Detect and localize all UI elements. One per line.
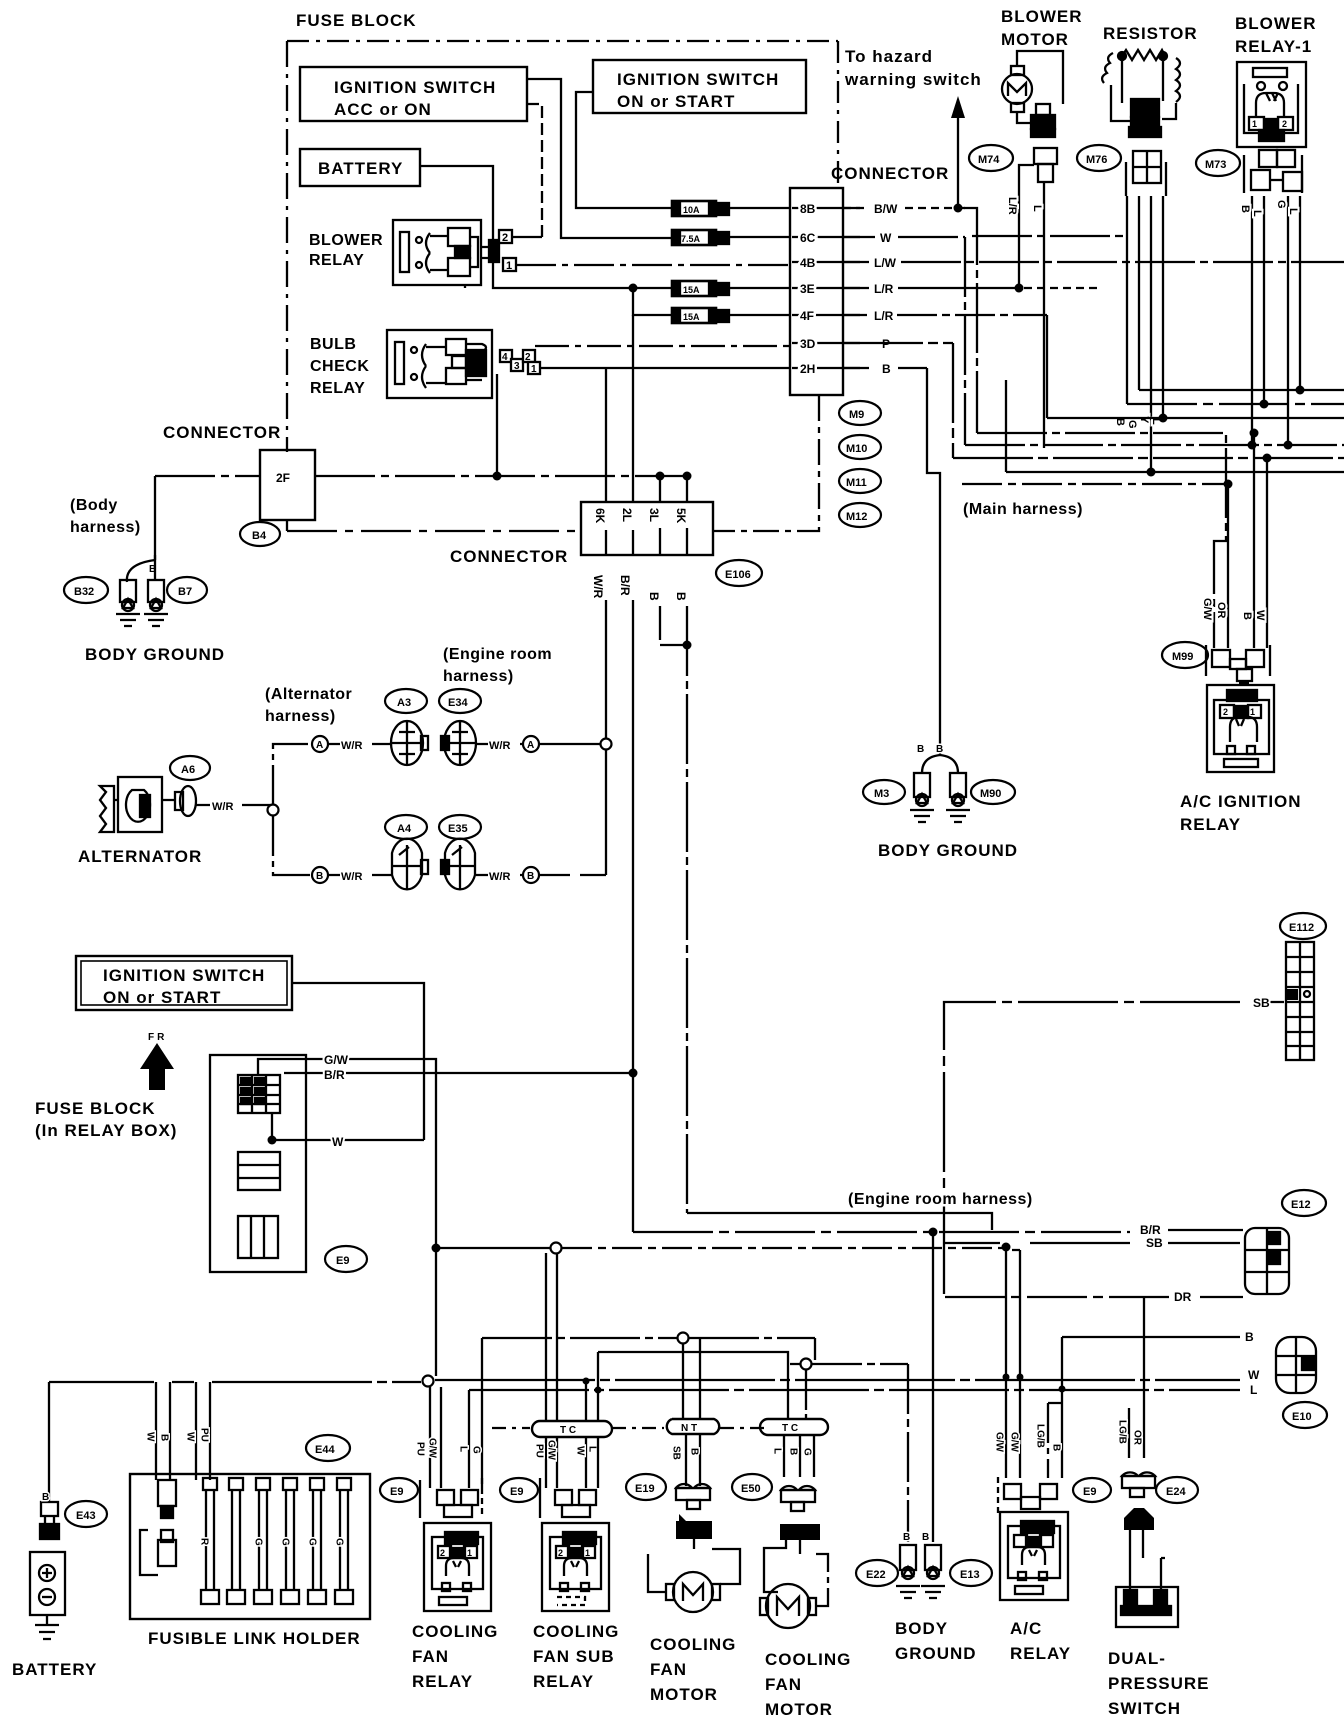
dual pressure switch	[1116, 1587, 1178, 1627]
body ground mid clamps	[910, 755, 970, 822]
wire B columns merge	[660, 606, 687, 1213]
svg-text:4 3: 4 3	[567, 1534, 580, 1544]
svg-text:E106: E106	[725, 569, 751, 581]
oval M90	[971, 780, 1015, 804]
fuse 15A (4F)	[672, 308, 729, 323]
svg-text:CONNECTOR: CONNECTOR	[450, 547, 568, 566]
svg-text:6C: 6C	[800, 231, 816, 245]
svg-text:1: 1	[1250, 707, 1255, 717]
svg-text:L/W: L/W	[874, 256, 897, 270]
svg-text:B/W: B/W	[874, 202, 898, 216]
svg-text:BLOWER: BLOWER	[309, 232, 383, 249]
svg-text:MOTOR: MOTOR	[1001, 30, 1069, 49]
svg-text:G: G	[307, 1538, 318, 1546]
svg-text:G: G	[253, 1538, 264, 1546]
wire W/R column down	[605, 600, 607, 875]
svg-text:B/R: B/R	[618, 575, 632, 596]
svg-text:SB: SB	[1253, 996, 1270, 1010]
blower motor connector M74	[1019, 148, 1057, 196]
svg-text:1: 1	[585, 1548, 590, 1558]
oval M76	[1077, 145, 1121, 171]
svg-text:G/W: G/W	[546, 1440, 557, 1461]
svg-text:SB: SB	[1146, 1236, 1163, 1250]
svg-text:L/R: L/R	[874, 309, 894, 323]
svg-text:FUSE BLOCK: FUSE BLOCK	[35, 1099, 156, 1118]
wire ACC to blower relay pin2	[527, 104, 542, 239]
wire OR down to M99	[1227, 484, 1229, 648]
wire B4 link from 2F bottom	[287, 520, 581, 531]
svg-text:B: B	[159, 1434, 170, 1441]
svg-text:L: L	[1287, 208, 1299, 215]
connector A3 (round with cross)	[391, 721, 428, 765]
svg-text:L: L	[458, 1446, 469, 1452]
svg-text:A: A	[527, 740, 534, 751]
oval M3	[863, 780, 905, 804]
svg-text:W/R: W/R	[489, 871, 510, 883]
svg-text:RELAY: RELAY	[533, 1672, 594, 1691]
svg-text:G/W: G/W	[1009, 1432, 1020, 1453]
svg-text:4F: 4F	[800, 309, 814, 323]
svg-text:R: R	[199, 1538, 210, 1546]
svg-text:PU: PU	[534, 1444, 545, 1458]
svg-text:B: B	[1239, 205, 1251, 213]
wire B/R column down	[632, 600, 634, 1232]
dual pressure wires	[1129, 1297, 1144, 1458]
oval A4	[385, 815, 427, 839]
svg-text:G/W: G/W	[427, 1438, 438, 1459]
svg-text:IGNITION SWITCH: IGNITION SWITCH	[617, 70, 779, 89]
svg-text:RELAY: RELAY	[1010, 1644, 1071, 1663]
ovals M9-M12	[839, 401, 881, 425]
wire ON/START to 10A fuse	[576, 92, 672, 208]
bulb check relay pins 4,3,2,1	[500, 350, 540, 374]
relay-1 wires down	[1251, 196, 1253, 445]
wire bulb check pin1 to 2H row	[540, 367, 790, 369]
wire rail dashes between ovals	[492, 1427, 770, 1429]
svg-text:E22: E22	[866, 1569, 886, 1581]
svg-text:1: 1	[531, 364, 537, 375]
svg-text:(Body: (Body	[70, 497, 118, 514]
resistor wires B G Y L down	[1126, 196, 1128, 404]
connector box	[790, 188, 843, 395]
svg-text:ON or START: ON or START	[103, 988, 221, 1007]
E12 connector	[1245, 1228, 1289, 1294]
oval E9 (fuse block)	[325, 1246, 367, 1272]
wire W/R to A4 connector	[328, 874, 392, 876]
cooling fan motor2	[760, 1540, 828, 1628]
svg-text:B: B	[674, 592, 688, 601]
fuse 10A	[672, 201, 729, 216]
svg-text:E34: E34	[448, 697, 468, 709]
connector E34 (round with cross, black pin)	[441, 721, 476, 765]
body ground left clamps	[116, 555, 168, 626]
svg-text:T C: T C	[782, 1423, 798, 1434]
oval A3	[385, 689, 427, 713]
fuse block dashed outline	[287, 40, 838, 42]
svg-text:RELAY-1: RELAY-1	[1235, 37, 1312, 56]
cooling fan motor1 pins	[676, 1521, 712, 1539]
svg-text:G: G	[1126, 420, 1138, 429]
E112 connector grid	[1286, 942, 1314, 1060]
cooling fan relay	[424, 1523, 491, 1611]
fusible link holder box	[130, 1474, 370, 1619]
oval E35	[439, 815, 481, 839]
cooling fan relay connector	[420, 1478, 482, 1518]
wire blower relay pin2 up-link	[512, 236, 542, 238]
wire 4B L/W row	[843, 261, 1344, 263]
svg-text:5K: 5K	[674, 508, 688, 524]
bulb check relay	[387, 330, 492, 398]
svg-text:BLOWER: BLOWER	[1001, 7, 1083, 26]
fuse 7.5A	[672, 230, 729, 245]
oval B7	[167, 577, 207, 603]
ignition switch ON/START box (lower)	[76, 956, 292, 1010]
circled A left	[312, 736, 328, 752]
wire PU/GW pair to cooling fan relay	[430, 1387, 441, 1488]
connector A4	[391, 839, 428, 890]
oval E13	[950, 1560, 992, 1586]
svg-text:B: B	[917, 744, 924, 755]
svg-text:W: W	[185, 1432, 196, 1442]
A/C relay wires down	[1006, 1247, 1020, 1478]
svg-text:L/R: L/R	[874, 282, 894, 296]
oval E50	[732, 1474, 772, 1500]
wire battery feed down to lower connector 2L	[632, 315, 634, 502]
wire blower relay pin1 to 4B row	[516, 264, 790, 266]
battery (lower)	[30, 1382, 65, 1639]
svg-text:ACC or ON: ACC or ON	[334, 100, 432, 119]
svg-text:B: B	[689, 1448, 700, 1455]
fuse block output wires	[258, 1059, 436, 1376]
wire 6C W row	[843, 236, 1127, 237]
wire motor L down to bundle	[1043, 182, 1045, 448]
svg-text:B: B	[922, 1532, 929, 1543]
svg-text:B4: B4	[252, 530, 267, 542]
svg-text:8B: 8B	[800, 202, 816, 216]
svg-text:BODY: BODY	[895, 1619, 948, 1638]
wire motor2 columns	[784, 1435, 814, 1477]
oval A6	[170, 756, 210, 780]
svg-text:E19: E19	[635, 1483, 655, 1495]
svg-text:BULB: BULB	[310, 336, 356, 353]
svg-text:2L: 2L	[620, 508, 634, 522]
svg-text:M11: M11	[846, 477, 867, 489]
svg-text:N T: N T	[681, 1423, 697, 1434]
cooling fan motor1	[648, 1539, 740, 1612]
svg-text:2: 2	[558, 1548, 563, 1558]
fuse block in relay box	[210, 1055, 306, 1272]
svg-text:To hazard: To hazard	[845, 47, 933, 66]
svg-text:1 2: 1 2	[686, 1526, 699, 1536]
svg-text:W: W	[1248, 1368, 1260, 1382]
svg-text:BLOWER: BLOWER	[1235, 14, 1317, 33]
svg-text:E44: E44	[315, 1444, 335, 1456]
svg-text:warning switch: warning switch	[844, 70, 982, 89]
svg-text:W/R: W/R	[489, 740, 510, 752]
wire B down to body ground mid	[927, 368, 940, 755]
svg-text:B: B	[42, 1492, 49, 1503]
wires 3L,5K up to 2F line	[660, 476, 687, 502]
svg-text:W: W	[145, 1432, 156, 1442]
svg-text:2: 2	[502, 232, 508, 244]
svg-text:A6: A6	[181, 764, 195, 776]
svg-text:FAN: FAN	[412, 1647, 449, 1666]
wire lower ON/START to right and down	[292, 983, 424, 1140]
svg-text:SWITCH: SWITCH	[1108, 1699, 1181, 1718]
svg-text:T C: T C	[560, 1425, 576, 1436]
svg-text:IGNITION SWITCH: IGNITION SWITCH	[334, 78, 496, 97]
wire alternator W/R to junction	[196, 804, 273, 806]
bundle line y458	[843, 343, 1344, 458]
wires fuses to connector	[729, 208, 790, 315]
svg-text:6K: 6K	[593, 508, 607, 524]
connector E35	[441, 839, 476, 890]
bundle line y472	[1006, 380, 1344, 472]
svg-text:harness): harness)	[265, 708, 336, 725]
svg-text:B/R: B/R	[324, 1068, 345, 1082]
circled B left	[312, 867, 328, 883]
wire 3E L/R row	[843, 287, 1018, 289]
svg-text:(Main harness): (Main harness)	[963, 501, 1083, 518]
cooling fan motor1 connector	[676, 1484, 710, 1509]
svg-text:G/W: G/W	[324, 1053, 349, 1067]
dual pressure switch connector blob	[1124, 1508, 1154, 1530]
wire B down to M99	[1253, 433, 1255, 648]
junction circle alternator	[268, 805, 279, 816]
svg-text:10A: 10A	[683, 205, 700, 215]
svg-text:FAN: FAN	[650, 1660, 687, 1679]
svg-text:4 1: 4 1	[449, 1534, 462, 1544]
svg-text:1: 1	[506, 260, 512, 272]
svg-text:B/R: B/R	[1140, 1223, 1161, 1237]
svg-text:MOTOR: MOTOR	[765, 1700, 833, 1719]
svg-text:G/W: G/W	[1201, 598, 1213, 621]
wire 2H B row	[843, 367, 927, 369]
blower relay	[393, 220, 481, 285]
svg-text:PU: PU	[415, 1442, 426, 1456]
svg-text:DUAL-: DUAL-	[1108, 1649, 1166, 1668]
cooling fan sub relay	[542, 1523, 609, 1611]
wire bulb check pin2 to 3D/P row	[535, 345, 790, 347]
wire E9 line to A/C relay	[436, 1247, 550, 1249]
oval E44	[306, 1435, 350, 1461]
svg-text:E10: E10	[1292, 1411, 1312, 1423]
wire 2F row	[155, 475, 690, 477]
oval E34	[439, 689, 481, 713]
svg-text:B: B	[1245, 1330, 1254, 1344]
wire W row long	[49, 1380, 1240, 1382]
svg-text:(Alternator: (Alternator	[265, 686, 352, 703]
svg-text:COOLING: COOLING	[650, 1635, 736, 1654]
svg-text:(Engine room: (Engine room	[443, 646, 552, 663]
wire motor1 columns	[683, 1338, 700, 1486]
svg-text:M10: M10	[846, 443, 867, 455]
battery box	[300, 149, 420, 186]
svg-text:(In RELAY BOX): (In RELAY BOX)	[35, 1121, 177, 1140]
svg-text:G/W: G/W	[994, 1432, 1005, 1453]
svg-text:3: 3	[514, 361, 520, 372]
wire battery to 15A fuses	[420, 166, 672, 288]
svg-text:E12: E12	[1291, 1199, 1311, 1211]
wire clamp2 branch	[932, 1232, 934, 1542]
dual pressure connector	[1122, 1472, 1155, 1497]
svg-text:A/C: A/C	[1010, 1619, 1042, 1638]
wire bulb check pin3 down to 2F line	[496, 374, 498, 476]
fusible links	[201, 1478, 353, 1604]
svg-text:W/R: W/R	[212, 801, 233, 813]
svg-text:2: 2	[1223, 707, 1228, 717]
svg-text:M76: M76	[1086, 154, 1107, 166]
fusible link feed wires	[156, 1382, 210, 1480]
svg-text:COOLING: COOLING	[765, 1650, 851, 1669]
svg-text:B32: B32	[74, 586, 94, 598]
svg-text:B: B	[936, 744, 943, 755]
svg-text:15A: 15A	[683, 285, 700, 295]
wire E35 to W/R B right	[476, 874, 606, 876]
wire blower relay bottom to battery line	[464, 285, 466, 288]
svg-text:COOLING: COOLING	[412, 1622, 498, 1641]
oval E10	[1283, 1402, 1327, 1428]
oval M99	[1162, 642, 1208, 668]
svg-text:DR: DR	[1174, 1290, 1192, 1304]
svg-text:FAN: FAN	[765, 1675, 802, 1694]
TC oval sub relay	[532, 1421, 612, 1437]
svg-text:M73: M73	[1205, 159, 1226, 171]
svg-text:B: B	[788, 1448, 799, 1455]
open circle junction W row	[423, 1376, 434, 1387]
A/C relay	[1000, 1512, 1068, 1600]
svg-text:L: L	[1251, 210, 1263, 217]
svg-text:E9: E9	[390, 1486, 403, 1498]
svg-text:3L: 3L	[647, 508, 661, 522]
bundle line y404	[1127, 403, 1344, 405]
blower relay pins 2,1	[481, 230, 516, 271]
svg-text:B7: B7	[178, 586, 192, 598]
svg-text:2H: 2H	[800, 362, 815, 376]
svg-text:SB: SB	[671, 1446, 682, 1460]
svg-text:RESISTOR: RESISTOR	[1103, 24, 1198, 43]
svg-text:RELAY: RELAY	[1180, 815, 1241, 834]
bundle line y445 P feed	[965, 237, 1344, 445]
svg-text:B: B	[1051, 1444, 1062, 1451]
wire W/R to A3 connector	[328, 743, 392, 745]
junction circle on W/R column	[601, 739, 612, 750]
svg-text:3D: 3D	[800, 337, 816, 351]
svg-text:46: 46	[1036, 119, 1046, 129]
svg-text:G: G	[471, 1446, 482, 1454]
wire DR row	[945, 1296, 1243, 1298]
svg-text:FUSE BLOCK: FUSE BLOCK	[296, 11, 417, 30]
oval E9 (cooling fan relay)	[380, 1478, 418, 1502]
M99 connector	[1206, 645, 1270, 681]
connector 2F box	[260, 450, 315, 520]
body ground bottom clamps	[896, 1545, 945, 1598]
wire 4F L/R row	[843, 314, 1047, 316]
cooling fan motor2 connector	[781, 1486, 815, 1511]
svg-text:G: G	[280, 1538, 291, 1546]
svg-text:M99: M99	[1172, 651, 1193, 663]
svg-text:FUSIBLE LINK HOLDER: FUSIBLE LINK HOLDER	[148, 1629, 361, 1648]
oval E22	[856, 1560, 898, 1586]
wire clamp1 branch	[812, 1364, 908, 1542]
svg-text:RELAY: RELAY	[412, 1672, 473, 1691]
svg-text:W: W	[1254, 610, 1266, 621]
svg-text:W/R: W/R	[341, 871, 362, 883]
svg-text:2: 2	[525, 352, 531, 363]
svg-text:E43: E43	[76, 1510, 96, 1522]
ignition switch ACC box	[300, 67, 527, 121]
svg-text:(Engine room harness): (Engine room harness)	[848, 1191, 1033, 1208]
wire B column to E12 B/R	[687, 1213, 992, 1230]
resistor symbol	[1102, 50, 1180, 137]
svg-text:E9: E9	[336, 1255, 349, 1267]
wire 6K column from 2H wire down to lower connector	[605, 368, 607, 502]
svg-text:BODY GROUND: BODY GROUND	[85, 645, 225, 664]
bundle line y433 W feed chain	[964, 208, 1226, 648]
oval B4	[240, 522, 280, 546]
svg-text:B: B	[1241, 612, 1253, 620]
svg-text:RELAY: RELAY	[309, 252, 364, 269]
svg-text:PU: PU	[199, 1428, 210, 1442]
fusible link contents	[140, 1480, 176, 1575]
svg-text:IGNITION SWITCH: IGNITION SWITCH	[103, 966, 265, 985]
svg-text:3 4: 3 4	[1262, 131, 1275, 141]
wire body harness B drop	[154, 476, 156, 560]
svg-text:L: L	[587, 1446, 598, 1452]
svg-text:E9: E9	[510, 1486, 523, 1498]
svg-text:PRESSURE: PRESSURE	[1108, 1674, 1210, 1693]
wire E34 to W/R A right	[476, 743, 602, 745]
svg-text:15A: 15A	[683, 312, 700, 322]
oval E112	[1280, 913, 1326, 939]
A/C ignition relay box	[1207, 685, 1274, 772]
cooling fan motor2 pins	[780, 1524, 820, 1540]
svg-text:B: B	[527, 871, 534, 882]
svg-text:3E: 3E	[800, 282, 815, 296]
fuse 15A (3E)	[672, 281, 729, 296]
svg-text:ALTERNATOR: ALTERNATOR	[78, 847, 202, 866]
svg-text:B: B	[647, 592, 661, 601]
svg-text:W: W	[575, 1446, 586, 1456]
svg-text:W: W	[332, 1135, 344, 1149]
svg-text:L: L	[1250, 1383, 1257, 1397]
blower motor	[1002, 51, 1063, 137]
svg-text:E50: E50	[741, 1483, 761, 1495]
cooling fan sub relay connector	[540, 1478, 596, 1518]
alternator connector bulb	[167, 786, 196, 816]
svg-text:2: 2	[1282, 119, 1287, 129]
wire sub relay W/L columns	[585, 1381, 587, 1488]
lower connector box	[581, 502, 713, 555]
svg-text:A: A	[316, 740, 323, 751]
svg-text:1: 1	[467, 1548, 472, 1558]
alternator	[100, 777, 167, 832]
svg-text:harness): harness)	[70, 519, 141, 536]
svg-text:E112: E112	[1289, 922, 1314, 934]
svg-text:4 3: 4 3	[1025, 1523, 1038, 1533]
svg-text:MOTOR: MOTOR	[650, 1685, 718, 1704]
svg-text:G: G	[334, 1538, 345, 1546]
wire motor L/R down to 3E dot	[1018, 196, 1020, 288]
wire 8B row to hazard junction	[843, 207, 968, 209]
svg-text:E13: E13	[960, 1569, 980, 1581]
svg-text:RELAY: RELAY	[310, 380, 365, 397]
svg-text:4: 4	[502, 352, 508, 363]
svg-text:CHECK: CHECK	[310, 358, 369, 375]
oval E19	[626, 1474, 666, 1500]
svg-text:B: B	[316, 871, 323, 882]
NT oval motor1	[667, 1419, 719, 1434]
